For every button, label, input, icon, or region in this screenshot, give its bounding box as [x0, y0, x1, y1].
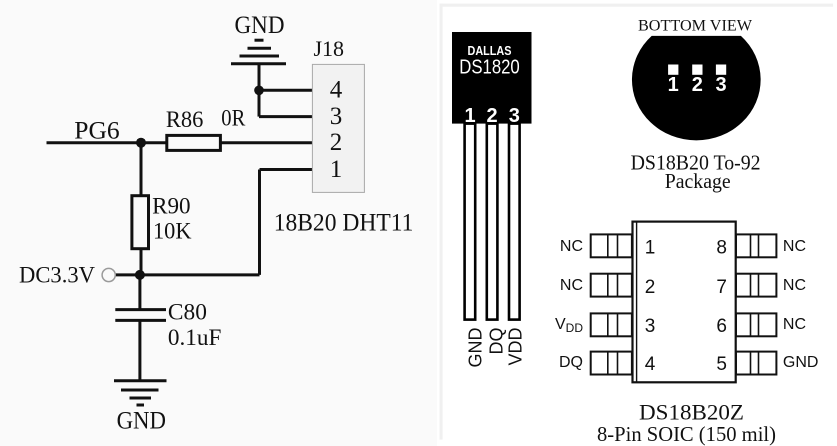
- svg-text:DQ: DQ: [487, 328, 507, 355]
- pin 1 pad stripes: [607, 234, 609, 257]
- SOIC pin 1 pad: [591, 234, 632, 257]
- svg-text:VDD: VDD: [555, 316, 583, 335]
- svg-text:DQ: DQ: [559, 354, 583, 371]
- SOIC pin 3 pad: [591, 313, 632, 336]
- pin 3 pad stripes: [607, 313, 609, 336]
- svg-text:10K: 10K: [153, 219, 192, 244]
- svg-text:0.1uF: 0.1uF: [168, 325, 222, 350]
- pad 3: [716, 65, 726, 75]
- svg-text:4: 4: [645, 354, 656, 375]
- SOIC pin 7 pad: [736, 274, 776, 297]
- wire: top ground stem down to pin3 row: [258, 64, 261, 117]
- junction: top ground to pins 3/4: [254, 86, 264, 96]
- svg-text:DS18B20Z: DS18B20Z: [639, 400, 744, 425]
- wire: C80 to bottom ground: [138, 320, 141, 380]
- capacitor C80 plates: [115, 310, 166, 321]
- svg-text:5: 5: [716, 354, 727, 375]
- svg-text:7: 7: [716, 277, 727, 298]
- svg-text:NC: NC: [783, 316, 806, 333]
- svg-text:2: 2: [645, 277, 656, 298]
- wire: net PG6 horizontal: [47, 141, 167, 144]
- SOIC pin 6 pad: [736, 313, 776, 336]
- pin 4 pad stripes: [607, 352, 609, 375]
- datasheet panel border top: [440, 4, 834, 7]
- wire: to J18 pin 3: [259, 115, 313, 118]
- pin 8 pad stripes: [750, 234, 752, 257]
- pin 6 pad stripes: [750, 313, 752, 336]
- ground (bottom earth symbol): [114, 381, 167, 405]
- svg-text:3: 3: [645, 316, 656, 337]
- svg-text:DS1820: DS1820: [459, 57, 520, 79]
- pad 2: [692, 65, 702, 75]
- svg-text:3: 3: [330, 103, 343, 130]
- TO-92 bottom view body: [632, 36, 761, 140]
- pin 2 pad stripes: [607, 274, 609, 297]
- svg-text:Package: Package: [665, 169, 731, 193]
- svg-text:C80: C80: [168, 299, 207, 324]
- svg-text:GND: GND: [235, 10, 285, 39]
- resistor R86 body: [167, 135, 221, 150]
- SOIC body: [633, 222, 736, 383]
- SOIC pin 4 pad: [591, 352, 632, 375]
- SOIC pin 2 pad: [591, 274, 632, 297]
- svg-text:DC3.3V: DC3.3V: [19, 262, 95, 287]
- svg-text:6: 6: [716, 316, 727, 337]
- datasheet panel background: [437, 0, 837, 446]
- junction: PG6 / R86 / R90 node: [136, 138, 146, 148]
- svg-text:PG6: PG6: [74, 116, 119, 145]
- wire: riser up to J18 pin1 row: [258, 170, 261, 275]
- DS1820 package body: [452, 32, 532, 124]
- svg-text:18B20 DHT11: 18B20 DHT11: [274, 209, 414, 236]
- SOIC pin 8 pad: [736, 234, 776, 257]
- svg-text:1: 1: [645, 238, 656, 259]
- wire: R86 to J18 pin 2: [220, 141, 313, 144]
- svg-text:8-Pin SOIC (150 mil): 8-Pin SOIC (150 mil): [597, 422, 776, 446]
- wire: PG6 node down to R90: [140, 143, 143, 196]
- lead pin 2: [487, 124, 498, 320]
- junction: DC3.3V node: [135, 270, 145, 280]
- svg-text:2: 2: [692, 74, 703, 96]
- wire: to J18 pin 1: [260, 168, 314, 171]
- SOIC pin 5 pad: [736, 352, 776, 375]
- lead pin 1: [465, 124, 476, 320]
- svg-text:R86: R86: [166, 107, 204, 132]
- svg-text:NC: NC: [560, 238, 583, 255]
- wire: to J18 pin 4: [259, 89, 313, 92]
- svg-text:1: 1: [330, 156, 343, 183]
- svg-text:VDD: VDD: [505, 328, 525, 366]
- SOIC body inner left line: [636, 222, 638, 383]
- svg-text:GND: GND: [117, 405, 166, 434]
- svg-text:GND: GND: [783, 354, 819, 371]
- wire: DC3.3V terminal to node and to riser: [116, 273, 260, 276]
- svg-text:GND: GND: [465, 328, 485, 368]
- svg-text:NC: NC: [783, 277, 806, 294]
- lead pin 3: [509, 124, 520, 320]
- pin 7 pad stripes: [750, 274, 752, 297]
- svg-text:BOTTOM VIEW: BOTTOM VIEW: [638, 17, 753, 34]
- svg-text:0R: 0R: [221, 106, 246, 131]
- terminal circle: DC3.3V: [102, 268, 115, 281]
- svg-text:NC: NC: [560, 277, 583, 294]
- ground (top earth symbol): [231, 40, 286, 64]
- wire: R90 bottom to DC3.3V node: [140, 249, 143, 275]
- svg-text:2: 2: [330, 129, 343, 156]
- pad 1: [668, 65, 678, 75]
- wire: node down to C80: [138, 275, 141, 310]
- datasheet panel border left: [440, 4, 443, 440]
- svg-text:3: 3: [715, 74, 726, 96]
- pin 5 pad stripes: [750, 352, 752, 375]
- svg-text:R90: R90: [152, 193, 191, 218]
- connector J18 body: [312, 64, 364, 192]
- resistor R90 body: [132, 196, 149, 249]
- svg-text:4: 4: [330, 77, 343, 104]
- svg-text:1: 1: [668, 74, 679, 96]
- svg-text:8: 8: [716, 238, 727, 259]
- svg-text:J18: J18: [314, 36, 345, 61]
- svg-text:NC: NC: [783, 238, 806, 255]
